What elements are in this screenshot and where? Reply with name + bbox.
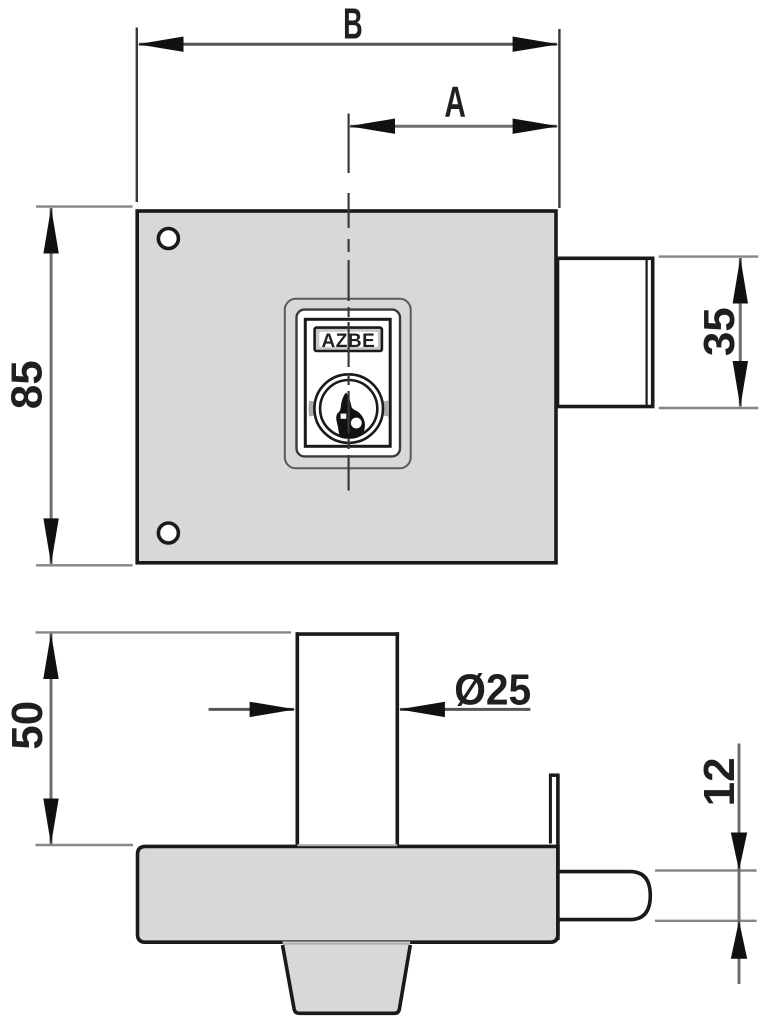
dimension 50 extension line bottom [36,844,134,846]
dimension D25 arrow left [250,702,296,717]
svg-text:12: 12 [695,757,744,806]
dimension 85 arrow bottom [43,518,58,564]
svg-text:50: 50 [3,701,52,750]
dimension 35 arrow bottom [733,361,748,407]
dimension A arrow right [513,119,559,134]
dimension 50 extension line top [36,631,292,633]
dimension 35 extension line bottom [659,407,759,409]
dimension D25 line right [400,708,530,711]
dimension D25 line left [209,708,294,711]
dimension 12 arrow lower [731,921,747,959]
screw hole bottom [158,523,178,543]
svg-text:85: 85 [3,360,52,409]
svg-text:A: A [444,78,466,127]
dimension A line [350,125,557,128]
center line (dash-dot) [348,114,350,491]
bolt (top view) [558,872,650,920]
lip flange (top view) [549,775,560,844]
AZBE label box [315,328,382,351]
dimension B arrow left [138,37,184,52]
dimension 12 extension line bottom [655,920,757,922]
lock body (top view) [138,846,558,942]
dimension A arrow left [349,119,395,134]
cylinder/body junction line [297,844,397,846]
body right edge (top view) [556,775,560,940]
escutcheon outer plate [285,299,411,469]
bolt (front view) [558,258,653,406]
cylinder housing (top view) [296,632,400,846]
screw hole top [158,229,178,249]
dimension 12 extension line top [655,869,757,871]
dimension 85 arrow top [43,208,58,254]
dimension 50 line [50,634,53,845]
dimension 35 extension line top [659,255,759,257]
cylinder outer circle [314,374,383,443]
dimension 85 extension line bottom [36,564,133,566]
dimension 85 extension line top [36,205,133,207]
dimension 12 line [738,744,741,985]
AZBE label plate [319,332,378,347]
dimension 50 arrow bottom [43,799,58,845]
dimension 12 arrow upper [731,833,747,871]
escutcheon inner face [305,319,390,446]
dimension 50 arrow top [43,633,58,679]
dimension 35 arrow top [733,258,748,304]
cylinder side arcs [308,401,314,416]
dimension 35 line [739,258,742,407]
svg-text:Ø25: Ø25 [454,666,531,715]
cylinder inner circle [320,380,377,437]
svg-text:B: B [343,0,363,49]
dimension B extension line left [136,28,138,203]
dimension B arrow right [513,37,559,52]
dimension 85 line [50,208,53,564]
key silhouette [336,393,365,439]
dimension B line [139,43,557,46]
dimension B extension line right [558,29,560,208]
escutcheon middle plate [297,310,401,457]
dimension D25 arrow right [399,702,445,717]
bottom tab (top view) [283,942,411,1014]
svg-text:35: 35 [695,307,744,356]
lock body (front view) [137,211,556,563]
